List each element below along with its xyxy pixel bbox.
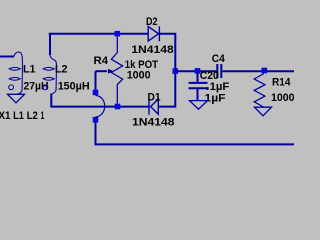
node junction R4 top — [115, 31, 121, 37]
svg-text:1µF: 1µF — [210, 81, 230, 93]
wire wiper to bottom net — [96, 122, 295, 144]
wire top net — [49, 33, 149, 35]
svg-text:D2: D2 — [146, 16, 158, 28]
svg-text:D1: D1 — [148, 91, 161, 103]
svg-text:1: 1 — [41, 110, 45, 122]
potentiometer R4 — [111, 37, 122, 104]
R4 wiper arrow — [96, 70, 108, 72]
wire C-row left segment — [175, 70, 216, 72]
node junction C20 — [195, 68, 201, 74]
svg-text:R14: R14 — [272, 77, 291, 89]
node junction R14 — [262, 68, 268, 74]
node wiper pad lower — [93, 117, 99, 123]
capacitor C4 — [217, 64, 221, 78]
value .1µF — [206, 87, 208, 90]
node wiper pad upper — [93, 90, 99, 96]
node junction R4 bottom — [115, 104, 121, 110]
svg-text:1N4148: 1N4148 — [131, 44, 174, 56]
wire wiper drop — [95, 71, 97, 89]
diode D1 — [149, 99, 158, 115]
wire D1 to right vertical riser — [158, 34, 175, 107]
wire C-row right segment — [222, 70, 294, 72]
svg-text:1µF: 1µF — [205, 92, 226, 104]
svg-text:X1: X1 — [0, 110, 11, 122]
ground under L1 — [8, 94, 25, 103]
diode D2 — [148, 26, 159, 41]
wire L1 top lead from left edge — [0, 56, 14, 58]
svg-text:C20: C20 — [200, 70, 219, 82]
svg-text:1000: 1000 — [271, 92, 294, 104]
inductor L2 (transformer X1 secondary winding) — [43, 55, 56, 95]
capacitor C20 — [189, 73, 208, 100]
node junction riser / C-row — [173, 68, 179, 74]
wire hop arc over L2 net — [96, 96, 105, 117]
svg-text:L2: L2 — [55, 64, 68, 76]
ground under C20 — [190, 101, 208, 110]
ground under R14 — [255, 107, 272, 116]
svg-text:L1: L1 — [23, 64, 36, 76]
inductor L1 (transformer X1 primary winding) — [9, 52, 23, 94]
svg-text:C4: C4 — [212, 53, 226, 65]
svg-text:R4: R4 — [94, 55, 109, 67]
svg-text:27µH: 27µH — [24, 81, 49, 93]
svg-text:L2: L2 — [27, 110, 38, 122]
resistor R14 — [254, 74, 265, 108]
svg-text:1N4148: 1N4148 — [132, 117, 175, 129]
svg-text:150µH: 150µH — [58, 81, 90, 93]
wire L2 bottom lead to D1 net — [51, 94, 149, 107]
svg-text:L1: L1 — [13, 110, 24, 122]
svg-text:1000: 1000 — [127, 70, 151, 82]
wire L2 top lead (from top net corner down) — [49, 34, 51, 55]
